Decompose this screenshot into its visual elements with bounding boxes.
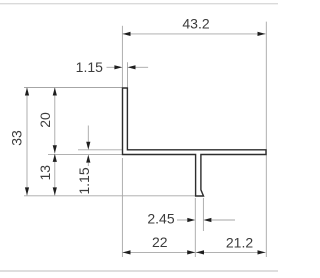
dimension 13 top arrow [53,154,57,162]
dimension 22/21.2 line [123,251,266,253]
dimension 2.45 tail [211,219,235,221]
extension line stem bottom (y=195.8, for 33 and 13) [24,195,196,197]
svg-text:1.15: 1.15 [76,59,103,75]
top page border line [0,3,278,5]
extension line stem right face (x=202.8, for 2.45) [202,198,204,231]
dimension 2.45 right arrow (points left) [203,218,211,222]
dimension 1.15 left lower leader [87,163,89,166]
dimension 13 line [54,154,56,196]
dimension 43.2 right arrow [258,32,266,36]
dimension 33 line [26,88,28,196]
dimension 22 left arrow [123,250,131,254]
svg-text:33: 33 [9,130,25,146]
extension line flange top face (y=149.8, for 1.15 left) [78,149,123,151]
dimension 1.15 top leader [107,66,116,68]
dimension 1.15 top left arrow (points right) [114,65,122,69]
dimension 1.15 top tail [136,66,149,68]
extension line stem left face (x=195.3, for 2.45 and 22/21.2) [194,198,196,257]
dimension 13 bottom arrow [53,187,57,195]
dimension 1.15 top right arrow (points left) [128,65,136,69]
svg-text:43.2: 43.2 [182,15,209,31]
extension line below outer corner (x=122.4, for 22) [121,158,123,257]
svg-text:13: 13 [37,165,53,181]
extension line flange bottom face (y=154.6, for 20/13/1.15) [48,154,123,156]
dimension 43.2 line [123,33,266,35]
dimension 1.15 left top arrow (points down) [86,142,90,150]
profile outline (Z-section with stem) [123,88,267,196]
svg-text:2.45: 2.45 [147,211,174,227]
dimension 2.45 leader [177,219,188,221]
dimension 21.2 left arrow [196,250,204,254]
extension line right face wall (x=127.5, for 1.15 top) [127,62,129,87]
dimension 1.15 left upper leader [87,126,89,147]
svg-text:21.2: 21.2 [226,234,253,250]
extension line wall top (y=87.5, for 33 and 20) [24,87,123,89]
extension line left face (x=122.4, for 43.2 and 1.15 top) [121,26,123,88]
dimension 20 bottom arrow [53,145,57,153]
dimension 22 right arrow [187,250,195,254]
dimension 20 top arrow [53,88,57,96]
svg-text:1.15: 1.15 [76,167,92,194]
dimension 20 line [54,88,56,154]
dimension 21.2 right arrow [258,250,266,254]
dimension 43.2 left arrow [123,32,131,36]
bottom page border line [0,270,278,272]
dimension 2.45 left arrow (points right) [187,218,195,222]
dimension 1.15 left bottom arrow (points up) [86,155,90,163]
dimension 33 top arrow [25,88,29,96]
dimension 33 bottom arrow [25,187,29,195]
svg-text:22: 22 [152,234,168,250]
extension line right end (x=266.3, for 43.2 and 21.2) [265,22,267,257]
svg-text:20: 20 [37,112,53,128]
